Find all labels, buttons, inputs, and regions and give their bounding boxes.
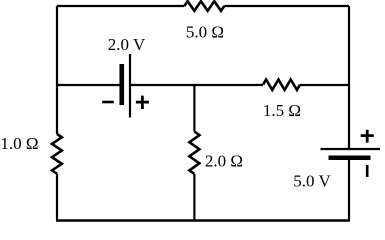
battery 2.0 V minus sign (102, 101, 114, 104)
battery 2.0 V plus sign (136, 96, 149, 109)
svg-text:1.0 Ω: 1.0 Ω (0, 134, 38, 153)
label 5.0 V (293, 172, 331, 191)
battery 5.0 V negative plate (short thick) (329, 155, 371, 160)
wire middle horizontal left (57, 84, 120, 86)
label 2.0 Ohm (205, 152, 243, 171)
svg-text:5.0 V: 5.0 V (293, 172, 331, 191)
label 1.0 Ohm (0, 134, 38, 153)
wire middle horizontal center (131, 84, 263, 86)
wire top-right segment (224, 5, 349, 7)
resistor 5.0 ohm zigzag (184, 1, 224, 11)
wire left side lower (56, 174, 58, 221)
wire bottom (56, 219, 350, 221)
wire middle horizontal right (300, 84, 349, 86)
resistor 1.0 ohm zigzag (52, 134, 62, 174)
battery 5.0 V minus mark (366, 165, 369, 177)
svg-text:2.0 Ω: 2.0 Ω (205, 152, 243, 171)
wire left side upper (56, 6, 58, 134)
wire middle vertical upper (193, 85, 195, 132)
battery 5.0 V positive plate (long thin) (321, 148, 381, 150)
wire right side lower (348, 160, 350, 221)
label 2.0 V (108, 35, 146, 54)
resistor 1.5 ohm zigzag (263, 80, 300, 90)
battery 5.0 V plus sign (361, 130, 374, 143)
label 5.0 Ohm (186, 23, 224, 42)
svg-text:1.5 Ω: 1.5 Ω (263, 101, 301, 120)
wire middle vertical lower (193, 174, 195, 221)
svg-text:2.0 V: 2.0 V (108, 35, 146, 54)
label 1.5 Ohm (263, 101, 301, 120)
wire right side upper (348, 6, 350, 149)
wire top-left segment (57, 5, 184, 7)
resistor 2.0 ohm zigzag (189, 132, 199, 174)
battery 2.0 V negative plate (short thick) (119, 64, 124, 105)
battery 2.0 V positive plate (long thin) (129, 54, 131, 118)
svg-text:5.0 Ω: 5.0 Ω (186, 23, 224, 42)
